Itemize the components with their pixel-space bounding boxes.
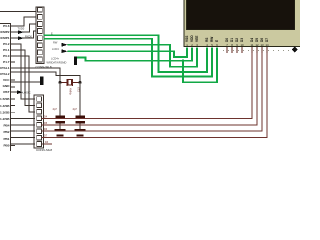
svg-text:GND: GND xyxy=(3,84,11,88)
wire: right leg down to C2 xyxy=(79,82,81,115)
red wire D7: CONN2 pin7 to LCD D7 xyxy=(41,48,267,138)
LCD LCD1 body xyxy=(184,0,304,47)
capacitor C1 xyxy=(56,116,66,124)
svg-text:XTAL1: XTAL1 xyxy=(0,66,10,70)
red wire D6: CONN2 pin6 to LCD D6 xyxy=(41,48,262,132)
terminal bar T2 xyxy=(74,57,77,66)
capacitor C2 xyxy=(76,116,86,124)
svg-text:P1.3/SB: P1.3/SB xyxy=(0,110,10,114)
wire: U1 P0.2 down to CONN2 pin1 xyxy=(11,44,36,99)
svg-text:E: E xyxy=(215,40,219,42)
wire net VDD (green): terminal bar T2 to LCD VDD xyxy=(77,48,192,61)
net arrow RXD on P0.3 wire xyxy=(18,36,24,40)
svg-text:P0.1: P0.1 xyxy=(3,48,10,52)
svg-text:RW: RW xyxy=(210,37,214,42)
svg-text:P0.2: P0.2 xyxy=(3,42,10,46)
net arrow TXD on P0.4 wire xyxy=(18,30,24,34)
svg-text:P1.7: P1.7 xyxy=(3,60,10,64)
net arrow LOGIC on RST pin xyxy=(11,91,18,93)
svg-text:RXD0: RXD0 xyxy=(25,34,32,38)
svg-text:RW: RW xyxy=(53,40,58,44)
svg-text:14: 14 xyxy=(265,43,269,47)
svg-text:4p7: 4p7 xyxy=(73,107,78,111)
wire: U1 pin to CONN2 pin8 xyxy=(11,143,36,145)
wire: U1 P0.1 down to CONN2 pin2 xyxy=(11,50,36,105)
wire: U1 P0.6 to CONN1 pin2 xyxy=(11,17,37,26)
wire: U1 pin to CONN2 pin5 xyxy=(11,124,36,126)
wire: U1 pin to CONN2 pin7 xyxy=(11,137,36,139)
grid dots (only visible near LCD) xyxy=(223,50,289,51)
crystal X1 xyxy=(60,79,80,86)
svg-text:P1.2/SB: P1.2/SB xyxy=(0,117,10,121)
svg-text:WR/DATA/RSMD: WR/DATA/RSMD xyxy=(47,61,67,65)
U1 pin stubs xyxy=(11,26,16,146)
connector J2 (bottom SIL-8) xyxy=(34,95,44,148)
red wire D5: CONN2 pin5 to LCD D5 xyxy=(41,48,257,125)
svg-text:10: 10 xyxy=(240,43,244,47)
wire: C1 to ground xyxy=(59,124,61,130)
wire: C2 to ground xyxy=(79,124,81,130)
svg-text:RS: RS xyxy=(205,38,209,42)
wire: U1 P0.3 to CONN1 pin4 xyxy=(11,31,37,38)
wire: net to CONN1 pin1 from left edge xyxy=(0,10,36,12)
wire: U1 pin to CONN2 pin6 xyxy=(11,130,36,132)
wire: left leg down to C1 xyxy=(59,82,61,115)
wire (dark red): stub with net label on CONN2 pin8 xyxy=(41,143,52,145)
ground G2 xyxy=(75,129,86,136)
svg-text:D5: D5 xyxy=(255,38,259,42)
svg-text:CONN-SIL8: CONN-SIL8 xyxy=(36,65,52,69)
svg-text:PB4: PB4 xyxy=(3,124,9,128)
svg-text:LCD4: LCD4 xyxy=(52,47,59,51)
junction node A xyxy=(59,81,62,84)
svg-text:VDD: VDD xyxy=(190,35,194,42)
wire: U1 XTAL2 to crystal right leg xyxy=(11,72,81,82)
svg-text:VCC: VCC xyxy=(3,78,10,82)
svg-text:D4: D4 xyxy=(250,38,254,42)
svg-text:4MHz: 4MHz xyxy=(69,88,73,95)
svg-text:RST: RST xyxy=(3,90,9,94)
wire: U1 P0.0 down to CONN2 pin3 xyxy=(11,56,36,112)
svg-text:4p7: 4p7 xyxy=(53,107,58,111)
wire net RW (green): J1 pin5 to LCD RW xyxy=(44,39,213,77)
terminal bar T1 xyxy=(40,77,43,86)
svg-text:VEE: VEE xyxy=(195,36,199,42)
wire net VSS (green): terminal arrow to LCD VSS xyxy=(68,48,188,58)
svg-text:D1: D1 xyxy=(230,38,234,42)
svg-text:12: 12 xyxy=(255,43,259,47)
svg-text:PB0: PB0 xyxy=(3,144,9,148)
svg-text:VSS: VSS xyxy=(185,36,189,42)
svg-text:D0: D0 xyxy=(225,38,229,42)
svg-text:E: E xyxy=(51,31,53,35)
svg-text:P0.4/CMP2: P0.4/CMP2 xyxy=(0,30,10,34)
svg-text:P1.4/SB: P1.4/SB xyxy=(0,104,10,108)
svg-text:11: 11 xyxy=(251,43,254,47)
red wire D4: CONN2 pin4 to LCD D4 xyxy=(41,48,252,119)
svg-text:CONN-SIL8: CONN-SIL8 xyxy=(36,148,52,151)
connector J1 (top SIL-8) xyxy=(36,7,44,64)
LCD pin numbers xyxy=(186,43,269,47)
wire net VEE (green): terminal arrow to LCD VEE xyxy=(68,45,198,67)
ground G1 xyxy=(55,129,66,136)
terminal arrow on VSS wire xyxy=(62,49,68,53)
svg-text:D3: D3 xyxy=(240,38,244,42)
LCD pin name labels (vertical) xyxy=(185,35,269,42)
junction dots green xyxy=(182,60,185,63)
svg-text:LCD4+: LCD4+ xyxy=(51,57,60,61)
svg-text:13: 13 xyxy=(260,43,264,47)
wire: U1 GND pin to terminal bar xyxy=(11,81,41,83)
origin marker diamond xyxy=(292,47,298,53)
svg-text:P0.3/CMP1: P0.3/CMP1 xyxy=(0,36,10,40)
svg-text:TXD0: TXD0 xyxy=(18,26,25,30)
wire net RS (green): from J1 area to LCD pin RS xyxy=(44,35,208,72)
U1 pin labels xyxy=(0,24,10,148)
svg-text:D6: D6 xyxy=(260,38,264,42)
wire: U1 XTAL1 to crystal left leg xyxy=(11,68,61,82)
junction node B xyxy=(79,81,82,84)
svg-text:P0.0: P0.0 xyxy=(3,54,10,58)
wire: U1 pin to CONN2 pin4 xyxy=(11,117,36,119)
microcontroller U1 (left, cut off) xyxy=(0,24,11,152)
svg-text:LOGIC: LOGIC xyxy=(23,91,31,95)
svg-text:P0.6: P0.6 xyxy=(3,24,10,28)
svg-text:PB2: PB2 xyxy=(3,130,9,134)
svg-text:PB1: PB1 xyxy=(3,137,9,141)
wire net E (green): branch from VDD line to LCD E xyxy=(183,48,217,83)
svg-text:P1.5/SB: P1.5/SB xyxy=(0,97,10,101)
svg-text:XTAL2: XTAL2 xyxy=(0,72,10,76)
wire: U1 P0.4 to CONN1 pin3 xyxy=(11,24,37,32)
LCD pin stubs xyxy=(227,47,267,53)
terminal arrow on VEE wire xyxy=(62,43,68,47)
svg-text:D7: D7 xyxy=(265,38,269,42)
LCD display window xyxy=(187,0,295,30)
svg-text:D2: D2 xyxy=(235,38,239,42)
